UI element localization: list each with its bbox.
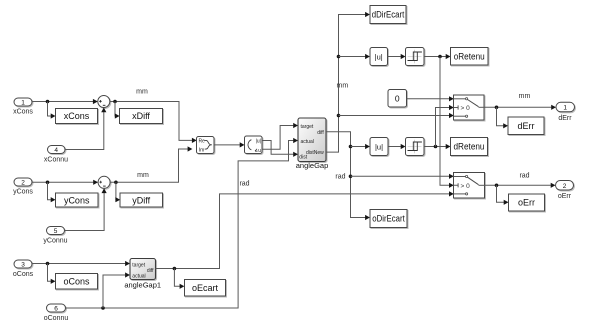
wire Switch2 output to outport 2 — [485, 184, 551, 186]
svg-text:oDirEcart: oDirEcart — [372, 214, 405, 224]
wire C2MA angle to angleGap target — [262, 126, 293, 150]
svg-text:dErr: dErr — [558, 115, 572, 122]
subsystem angleGap1 — [130, 259, 156, 280]
wire branch to oCons block — [48, 264, 51, 282]
svg-text:yCons: yCons — [13, 189, 33, 196]
sum block Sum2 — [98, 176, 110, 188]
svg-text:Im: Im — [199, 148, 205, 154]
wire branch to oEcart — [174, 269, 179, 287]
wire constant 0 to Switch1 top input — [407, 98, 450, 100]
arrow into outport 1 — [551, 105, 556, 110]
arrow into xCons — [51, 113, 56, 118]
sum block Sum1 — [98, 96, 110, 108]
wire branch to xCons block — [48, 102, 51, 117]
svg-text:diff: diff — [147, 268, 154, 274]
junction oErr branch — [495, 184, 499, 188]
svg-text:actual: actual — [301, 139, 314, 145]
block Real-Imag to Complex — [197, 137, 215, 154]
wire branch to yCons block — [48, 182, 51, 199]
block dErr — [508, 117, 544, 135]
svg-text:mm: mm — [137, 172, 149, 179]
wire port3 to angleGap1 target — [32, 263, 125, 265]
block xCons — [56, 109, 98, 124]
arrow into Relay2 — [401, 144, 406, 149]
arrow into Switch2 bottom input — [449, 191, 454, 196]
block Complex to Magnitude-Angle — [245, 136, 263, 154]
svg-text:5: 5 — [54, 228, 58, 235]
arrow into Switch1 top — [449, 96, 454, 101]
arrow into yDiff — [115, 197, 120, 202]
arrow into oRetenu — [446, 54, 451, 59]
block oRetenu — [451, 48, 489, 66]
svg-text:6: 6 — [54, 306, 58, 313]
svg-text:yDiff: yDiff — [132, 195, 150, 205]
arrow into angleGap actual — [293, 138, 298, 143]
inport 6 oConnu — [47, 304, 66, 313]
block Abs2 |u| — [370, 138, 388, 156]
svg-text:oCons: oCons — [13, 271, 34, 278]
arrow into oErr — [504, 200, 509, 205]
wire Relay2 branch up to Switch1 middle input — [436, 108, 450, 147]
arrow into dErr — [503, 123, 508, 128]
arrow into Switch1 middle — [449, 105, 454, 110]
svg-text:xConnu: xConnu — [44, 156, 68, 163]
arrow into xDiff — [115, 113, 120, 118]
wire port4 to Sum1 bottom — [65, 112, 104, 149]
arrow into oDirEcart — [365, 215, 370, 220]
svg-text:oCons: oCons — [63, 277, 90, 287]
wire angleGap diff output (rad net) — [326, 132, 366, 218]
inport 1 xCons — [14, 98, 32, 107]
block yDiff — [120, 193, 163, 207]
svg-text:dRetenu: dRetenu — [454, 142, 485, 152]
inport 2 yCons — [14, 178, 32, 187]
block oDirEcart — [370, 210, 407, 228]
junction Relay2 out to Switch1 middle — [434, 145, 438, 149]
svg-text:oRetenu: oRetenu — [454, 51, 485, 61]
svg-text:xDiff: xDiff — [132, 111, 150, 121]
wire Abs2 to Relay2 — [388, 146, 401, 148]
svg-text:mm: mm — [337, 83, 349, 90]
svg-text:yCons: yCons — [64, 195, 90, 205]
arrow into oEcart — [180, 284, 185, 289]
arrow into Relay1 — [401, 54, 406, 59]
svg-text:actual: actual — [132, 274, 145, 280]
wire Relay1 branch down to Switch2 middle input — [440, 57, 449, 186]
outport 2 oErr — [556, 181, 574, 191]
block Relay2 — [406, 138, 425, 156]
arrow into oCons — [51, 279, 56, 284]
wire Abs1 to Relay1 — [388, 56, 401, 58]
svg-text:rad: rad — [519, 172, 529, 179]
wire ReIm to ComplexToMagAngle — [214, 144, 240, 146]
svg-text:1: 1 — [563, 105, 567, 112]
arrow into Abs2 — [365, 144, 370, 149]
svg-text:angleGap1: angleGap1 — [124, 280, 161, 289]
svg-text:> 0: > 0 — [461, 183, 471, 190]
svg-text:target: target — [301, 124, 314, 130]
wire branch up to angleGap1 actual — [103, 275, 125, 308]
arrow into angleGap1 target — [125, 261, 130, 266]
block dRetenu — [451, 138, 488, 156]
svg-text:4: 4 — [54, 147, 58, 154]
wire branch to xDiff — [114, 102, 116, 117]
arrow into angleGap target — [293, 123, 298, 128]
arrow into Sum2 left — [93, 180, 98, 185]
arrow into Switch2 top — [449, 174, 454, 179]
wire C2MA magnitude |u| to angleGap dist — [262, 141, 293, 155]
wire diff branch to Switch2 top input — [351, 175, 450, 177]
junction dErr branch — [495, 106, 499, 110]
svg-text:xCons: xCons — [13, 109, 33, 116]
svg-text:2: 2 — [563, 183, 567, 190]
arrow into dRetenu — [446, 144, 451, 149]
block oCons — [56, 274, 98, 290]
svg-text:u: u — [258, 148, 261, 154]
svg-text:oErr: oErr — [558, 193, 572, 200]
junction distNew to Switch1 bottom — [337, 114, 341, 118]
svg-text:dDirEcart: dDirEcart — [372, 10, 405, 20]
arrow into Sum1 left — [93, 99, 98, 104]
svg-text:0: 0 — [395, 94, 400, 104]
block Relay1 — [406, 48, 425, 66]
arrow into angleGap1 actual — [125, 272, 130, 277]
wire port5 to Sum2 bottom — [65, 193, 105, 231]
svg-text:rad: rad — [335, 174, 345, 181]
junction port1 branch — [46, 100, 50, 104]
wire port6 along bottom then up to angleGap actual — [66, 141, 294, 309]
svg-text:mm: mm — [136, 89, 148, 96]
arrow into angleGap dist — [293, 152, 298, 157]
arrow up into Sum1 — [101, 108, 106, 113]
junction port2 branch — [46, 181, 50, 185]
arrow into Switch2 middle — [449, 183, 454, 188]
svg-text:target: target — [132, 263, 145, 269]
junction port6 branch to angleGap1 actual — [101, 306, 105, 310]
wire branch to yDiff — [115, 182, 117, 199]
wire diff branch to Abs2 — [351, 146, 366, 148]
junction diff to Switch2 — [349, 175, 353, 179]
svg-text:|u|: |u| — [256, 139, 261, 145]
wire angleGap distNew output (mm net) — [326, 15, 366, 153]
arrow into dDirEcart — [365, 12, 370, 17]
junction Sum2 out branch — [114, 181, 118, 185]
outport 1 dErr — [556, 102, 575, 112]
arrow into outport 2 — [551, 183, 556, 188]
block dDirEcart — [370, 6, 406, 24]
inport 4 xConnu — [48, 146, 66, 155]
arrow into Abs1 — [365, 54, 370, 59]
arrow into yCons — [51, 197, 56, 202]
svg-text:1: 1 — [21, 100, 25, 107]
svg-text:3: 3 — [21, 262, 25, 269]
junction port3 branch — [46, 262, 50, 266]
svg-text:|u|: |u| — [375, 52, 383, 61]
junction diff to Abs2 — [349, 145, 353, 149]
junction Sum1 out branch — [113, 100, 117, 104]
wire Relay2 output to dRetenu — [424, 146, 446, 148]
wire distNew branch to Switch1 bottom input — [339, 115, 450, 117]
inport 3 oCons — [14, 260, 32, 269]
arrow into ComplexToMagAngle — [240, 142, 245, 147]
junction Relay1 out to Switch2 middle — [438, 55, 442, 59]
subsystem angleGap — [298, 118, 326, 162]
block oErr — [509, 194, 545, 211]
arrow into ReIm Re input — [192, 138, 197, 143]
junction distNew to Abs1 — [337, 55, 341, 59]
wire Switch1 output to outport 1 — [484, 106, 551, 108]
svg-text:2: 2 — [21, 180, 25, 187]
arrow into ReIm Im input — [188, 146, 193, 151]
svg-text:mm: mm — [519, 93, 531, 100]
svg-text:xCons: xCons — [64, 111, 90, 121]
svg-text:diff: diff — [317, 130, 324, 136]
wire branch to dErr block — [497, 107, 504, 126]
svg-text:distNew: distNew — [306, 150, 324, 156]
svg-text:oErr: oErr — [518, 198, 535, 208]
block Switch2 — [454, 173, 485, 199]
wire branch to oErr block — [497, 185, 504, 202]
wire Sum2 output — [110, 149, 188, 182]
svg-text:> 0: > 0 — [461, 105, 471, 112]
svg-text:oConnu: oConnu — [44, 315, 69, 322]
block Abs1 |u| — [370, 48, 388, 66]
junction angleGap1 diff branch — [173, 267, 177, 271]
arrow into Switch1 bottom — [449, 113, 454, 118]
block yCons — [56, 193, 99, 207]
wire Relay1 output to oRetenu — [424, 56, 446, 58]
constant block 0 — [388, 90, 407, 108]
svg-text:dErr: dErr — [517, 121, 534, 131]
wire angleGap1 diff output — [156, 194, 450, 269]
svg-text:oEcart: oEcart — [192, 283, 219, 293]
wire Sum1 output — [110, 102, 192, 141]
svg-text:yConnu: yConnu — [43, 237, 67, 244]
block Switch1 — [454, 95, 485, 120]
inport 5 yConnu — [47, 227, 65, 236]
block xDiff — [120, 109, 163, 124]
svg-text:angleGap: angleGap — [296, 161, 329, 170]
svg-text:rad: rad — [239, 181, 249, 188]
svg-text:Re: Re — [199, 138, 206, 144]
wire port2 to Sum2 — [32, 181, 93, 183]
wire port1 to Sum1 — [32, 101, 93, 103]
block oEcart — [185, 280, 226, 297]
wire distNew branch to Abs1 — [339, 56, 366, 58]
arrow up into Sum2 — [102, 188, 107, 193]
svg-text:|u|: |u| — [375, 142, 383, 151]
